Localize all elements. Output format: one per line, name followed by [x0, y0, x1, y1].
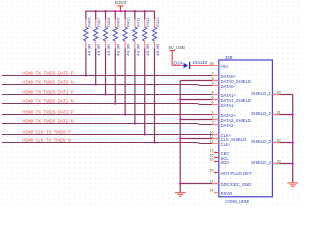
svg-text:R407: R407 [96, 17, 101, 27]
resistor R412 49.9R [143, 11, 151, 135]
junction R407 to net [95, 83, 97, 85]
resistor R407 49.9R [94, 11, 102, 85]
wire shield bus vertical [179, 81, 181, 184]
svg-text:16: 16 [209, 158, 213, 162]
svg-text:20: 20 [277, 91, 281, 95]
svg-text:D3V3: D3V3 [115, 0, 127, 5]
svg-text:49.9R: 49.9R [135, 43, 140, 56]
junction R410 to net [124, 113, 126, 115]
resistor R410 49.9R [123, 11, 131, 115]
pin 14 RSVD [209, 189, 232, 197]
wire right shield bus down [292, 95, 294, 183]
svg-text:HDMI_TX_TMDS_DAT1_P: HDMI_TX_TMDS_DAT1_P [22, 89, 73, 94]
svg-text:D24: D24 [174, 61, 184, 66]
svg-text:SHIELD_3: SHIELD_3 [251, 139, 271, 144]
wire net HDMI_TX_TMDS_DAT0_N [2, 85, 219, 86]
wire 5V_USB to D24 anode [172, 65, 184, 67]
resistor R413 49.9R [152, 11, 160, 143]
pin 23 SHIELD_4 [251, 160, 292, 165]
svg-text:CLK-: CLK- [221, 142, 231, 147]
junction R413 to net [153, 141, 155, 143]
svg-text:J29: J29 [225, 55, 234, 60]
svg-text:HDMI_TX_TMDS_DAT1_N: HDMI_TX_TMDS_DAT1_N [22, 98, 73, 103]
pin 18 +5V [209, 62, 228, 70]
pin 6 DATA1- [212, 101, 236, 109]
svg-text:12: 12 [209, 140, 213, 144]
svg-text:SDA: SDA [221, 160, 230, 165]
svg-text:18: 18 [209, 62, 213, 66]
svg-text:49.9R: 49.9R [96, 43, 101, 56]
svg-text:49.9R: 49.9R [126, 43, 131, 56]
junction shield/pin11 [179, 137, 181, 139]
pin 2 DATA2_SHIELD [212, 116, 251, 124]
pin 22 SHIELD_3 [251, 139, 292, 144]
svg-text:R412: R412 [145, 17, 150, 27]
pin 12 CLK- [209, 140, 230, 148]
resistor R411 49.9R [133, 11, 141, 124]
pin 15 SCL [209, 154, 229, 162]
wire net HDMI_TX_TMDS_DAT1_N [2, 104, 219, 105]
svg-text:5V_USB: 5V_USB [169, 45, 185, 50]
svg-text:4: 4 [212, 91, 214, 95]
svg-text:CONN_HDMI: CONN_HDMI [225, 199, 249, 204]
junction R406 to net [85, 74, 87, 76]
svg-text:6: 6 [212, 101, 214, 105]
svg-text:11: 11 [210, 135, 214, 139]
pin 5 DATA1_SHIELD [212, 96, 251, 104]
svg-text:1N4148: 1N4148 [192, 60, 207, 65]
svg-text:21: 21 [277, 111, 281, 115]
pin 9 DATA0- [212, 82, 236, 90]
junction shield/pin17 [179, 182, 181, 184]
svg-text:17: 17 [209, 180, 213, 184]
svg-text:R411: R411 [135, 17, 140, 27]
svg-text:SHIELD_2: SHIELD_2 [251, 111, 271, 116]
pin 1 DATA2+ [212, 111, 237, 119]
svg-text:R410: R410 [126, 17, 131, 27]
ground symbol left [175, 193, 186, 197]
svg-text:19: 19 [209, 169, 213, 173]
pin 7 DATA0+ [212, 72, 237, 80]
svg-text:49.9R: 49.9R [155, 43, 160, 56]
resistor R408 49.9R [103, 11, 111, 95]
wire net HDMI_TX_TMDS_DAT2_N [2, 124, 219, 125]
junction pin23 [292, 162, 294, 164]
pin 20 SHIELD_1 [251, 91, 292, 96]
svg-text:49.9R: 49.9R [106, 43, 111, 56]
svg-text:SHIELD_1: SHIELD_1 [251, 91, 271, 96]
pin 8 DATA0_SHIELD [212, 77, 251, 85]
junction R411 to net [134, 122, 136, 124]
pin 13 CEC [209, 149, 229, 157]
wire net HDMI_TX_TMDS_DAT0_P [2, 75, 219, 77]
svg-text:HDMI_TX_TMDS_DAT0_N: HDMI_TX_TMDS_DAT0_N [22, 79, 73, 84]
svg-text:R408: R408 [106, 17, 111, 27]
diode D24 1N4148 [184, 62, 190, 69]
pin 17 DDC/CEC_GND [209, 180, 251, 188]
svg-text:HDMI_TX_TMDS_DAT2_P: HDMI_TX_TMDS_DAT2_P [22, 109, 73, 114]
pin 10 CLK+ [209, 131, 231, 139]
svg-text:HOT PLUG DET: HOT PLUG DET [221, 171, 252, 176]
svg-text:2: 2 [212, 116, 214, 120]
resistor R409 49.9R [113, 11, 121, 104]
svg-text:8: 8 [212, 77, 214, 81]
svg-text:49.9R: 49.9R [145, 43, 150, 56]
wire shield to pin 2 [180, 119, 219, 121]
svg-text:R406: R406 [86, 17, 91, 27]
pin 19 HOT PLUG DET [209, 169, 251, 177]
wire shield to pin 11 [180, 138, 219, 140]
wire net HDMI_CLK_TX_TMDS_N [2, 143, 219, 144]
svg-text:HDMI_CLK_TX_TMDS_N: HDMI_CLK_TX_TMDS_N [22, 137, 71, 142]
svg-text:14: 14 [209, 189, 213, 193]
pin 21 SHIELD_2 [251, 111, 292, 116]
junction R409 to net [114, 102, 116, 104]
svg-text:R409: R409 [116, 17, 121, 27]
svg-text:49.9R: 49.9R [116, 43, 121, 56]
pin 3 DATA2- [212, 121, 236, 129]
svg-text:49.9R: 49.9R [86, 43, 91, 56]
pin 16 SDA [209, 158, 229, 166]
pin 11 CLK_SHIELD [210, 135, 246, 143]
wire shield to pin 17 DDC/CEC_GND [180, 183, 219, 185]
svg-text:23: 23 [277, 160, 281, 164]
svg-text:DDC/CEC_GND: DDC/CEC_GND [221, 182, 252, 187]
svg-text:RSVD: RSVD [221, 191, 233, 196]
junction dots on D3V3 bus [119, 10, 121, 12]
svg-text:3: 3 [212, 121, 214, 125]
svg-text:HDMI_TX_TMDS_DAT0_P: HDMI_TX_TMDS_DAT0_P [22, 70, 73, 75]
wire net HDMI_TX_TMDS_DAT1_P [2, 94, 219, 96]
wire to ground [179, 184, 181, 193]
resistor R406 49.9R [84, 11, 92, 76]
junction pin22 [292, 141, 294, 143]
svg-text:13: 13 [209, 149, 213, 153]
svg-text:DATA1-: DATA1- [221, 103, 236, 108]
svg-text:R413: R413 [155, 17, 160, 27]
svg-text:+5V: +5V [221, 64, 229, 69]
wire net HDMI_CLK_TX_TMDS_P [2, 134, 219, 136]
connector J29 box [219, 60, 273, 197]
svg-text:5: 5 [212, 96, 214, 100]
junction shield/pin2 [179, 118, 181, 120]
svg-text:DATA2-: DATA2- [221, 123, 236, 128]
junction R408 to net [104, 93, 106, 95]
svg-text:DATA0-: DATA0- [221, 84, 236, 89]
wire net HDMI_TX_TMDS_DAT2_P [2, 114, 219, 116]
junction R412 to net [144, 133, 146, 135]
svg-text:1: 1 [212, 111, 214, 115]
svg-text:22: 22 [277, 139, 281, 143]
wire shield to pin 8 [180, 80, 219, 82]
svg-text:HDMI_TX_TMDS_DAT2_N: HDMI_TX_TMDS_DAT2_N [22, 118, 73, 123]
svg-text:7: 7 [212, 72, 214, 76]
junction pin21 [292, 113, 294, 115]
svg-text:9: 9 [212, 82, 214, 86]
svg-text:SHIELD_4: SHIELD_4 [251, 160, 271, 165]
pin 4 DATA1+ [212, 91, 237, 99]
wire D24 cathode to pin 18 [190, 65, 219, 67]
ground symbol right [287, 183, 298, 187]
svg-text:HDMI_CLK_TX_TMDS_P: HDMI_CLK_TX_TMDS_P [22, 129, 71, 134]
junction shield/pin5 [179, 98, 181, 100]
wire: D3V3 bus [86, 10, 155, 12]
wire shield to pin 5 [180, 99, 219, 101]
